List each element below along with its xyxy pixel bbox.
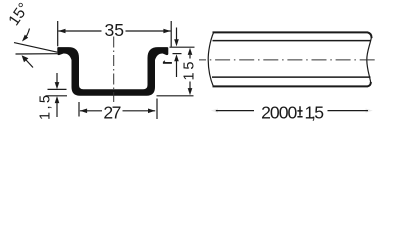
up arrow below xyxy=(56,103,58,117)
svg-text:27: 27 xyxy=(103,102,121,122)
label 1 (rotated) xyxy=(163,62,172,64)
vertical centerline of profile xyxy=(113,37,115,103)
extension line bottom y=53.5 xyxy=(173,53,182,55)
faint left arrowhead xyxy=(211,109,218,113)
dimension line right segment xyxy=(328,110,369,112)
svg-text:35: 35 xyxy=(105,20,125,40)
right extension line x=157 xyxy=(156,99,158,120)
svg-text:5: 5 xyxy=(314,103,324,123)
dimension line left segment xyxy=(216,110,254,112)
dimension 35: right extension line xyxy=(170,21,172,47)
extension line y=95.8 (left part) xyxy=(46,95,68,97)
extension line y=89.4 xyxy=(48,88,67,90)
up arrow at top xyxy=(189,55,191,59)
rail right end edge (wavy) xyxy=(367,37,372,83)
svg-text:1,5: 1,5 xyxy=(38,95,54,120)
up arrow below xyxy=(176,61,178,77)
dimension 35: left extension line xyxy=(57,21,59,46)
plus-minus symbol xyxy=(297,106,302,116)
rail upper inner line xyxy=(213,40,371,42)
line through label area xyxy=(189,82,191,89)
DIN rail profile cross-section (filled black) xyxy=(57,47,168,96)
extension line top y=47.2 xyxy=(170,46,195,48)
down arrow at bottom xyxy=(188,88,193,95)
dimension line with outward arrows xyxy=(80,110,155,112)
down arrow above xyxy=(176,28,178,40)
rail bottom edge xyxy=(213,82,371,86)
svg-text:2000: 2000 xyxy=(261,103,297,123)
rail left end edge (wavy) xyxy=(208,32,213,86)
faint right arrowhead xyxy=(366,109,373,113)
dimension 35: dimension line with outward arrows xyxy=(58,30,170,32)
straight arrow pointing to lower (horizontal) line xyxy=(26,59,34,67)
rail lower inner line xyxy=(212,76,371,78)
left extension line x=79 xyxy=(78,102,80,117)
15-degree angle reference lines at left lip xyxy=(14,43,57,53)
rail top edge xyxy=(213,32,372,38)
down arrow above xyxy=(56,73,58,83)
bottom extension line y=95.8 (right part) xyxy=(157,95,194,97)
horizontal centerline xyxy=(199,59,375,61)
curved leader arrow from 15-degree label to upper line xyxy=(24,29,30,41)
